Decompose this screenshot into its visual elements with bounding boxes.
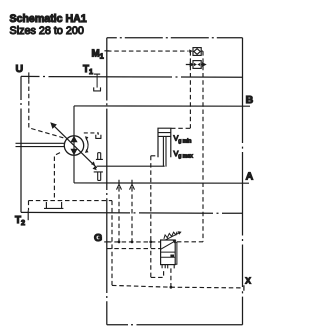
control valve V1 body	[161, 240, 176, 265]
stroking piston	[158, 133, 171, 137]
junction dot tap2-G	[131, 241, 134, 244]
svg-text:Sizes 28 to 200: Sizes 28 to 200	[10, 25, 84, 37]
orifice bowtie	[194, 63, 200, 66]
port U tick	[28, 72, 30, 79]
rotation direction arc	[86, 138, 88, 151]
check valve diamond	[194, 49, 200, 55]
spring adjustment arrow	[165, 233, 178, 240]
drain from valve bottom-right port (dashed)	[170, 268, 172, 287]
valve side bracket	[175, 242, 177, 264]
svg-text:T2: T2	[15, 215, 25, 227]
arrow out of orifice	[201, 63, 205, 66]
adjustment chevron 1	[91, 161, 95, 165]
control line valve to cylinder (dashed vertical)	[150, 156, 152, 278]
control valve metering diagonal	[161, 241, 175, 249]
control valve blob	[170, 255, 174, 258]
swivel arrowhead	[50, 122, 57, 129]
control housing envelope (dash-dot frame)	[107, 38, 243, 325]
drain riser from T2 (dashed)	[28, 201, 30, 211]
control valve diagonal arrowhead	[173, 240, 177, 243]
case drain drop from pump (dashed)	[54, 153, 60, 201]
port M1 tick	[104, 50, 109, 52]
pilot tap 2 on line A (dashed)	[131, 180, 133, 242]
port T2 tick	[27, 210, 29, 220]
svg-text:T1: T1	[83, 64, 93, 76]
rotation arc arrowhead top	[85, 136, 89, 140]
stroke stop lower (Vg 0 stop)	[94, 172, 103, 181]
case drain to internal tank (dashed, top right of pump)	[84, 133, 98, 135]
port X tick	[243, 285, 245, 290]
arrowhead into check valve	[189, 49, 193, 52]
pilot line from orifices to cylinder head side (dashed)	[171, 127, 190, 129]
pump flow line (vertical through pump)	[73, 106, 75, 183]
stroke stop upper (Vg max stop)	[96, 153, 103, 160]
svg-text:M1: M1	[92, 49, 104, 61]
arrow into orifice	[186, 63, 193, 66]
pump flow triangle up	[70, 136, 77, 143]
port T1 stem	[96, 74, 98, 88]
check valve body C1	[193, 48, 201, 56]
svg-text:U: U	[16, 63, 24, 75]
rotation arc arrowhead bottom	[85, 149, 89, 153]
adjustment chevron 2	[93, 166, 97, 170]
feedback link to stroking piston rod	[97, 165, 165, 167]
pilot line U (dashed, to swivel arrow)	[29, 79, 64, 138]
svg-text:Schematic HA1: Schematic HA1	[10, 13, 87, 25]
control valve spring	[164, 232, 177, 239]
piston rod	[163, 136, 166, 166]
swivel arrow (variable displacement)	[53, 125, 97, 168]
valve port tab bottom-right	[168, 265, 175, 269]
svg-text:A: A	[246, 171, 254, 183]
flow arrow on tap 2	[130, 184, 135, 189]
pilot line into rod-side chamber (dashed stub)	[151, 155, 158, 157]
svg-text:Vgmax: Vgmax	[174, 149, 194, 160]
orifice body O1	[193, 61, 201, 69]
svg-text:B: B	[246, 94, 254, 106]
port G tick	[104, 241, 109, 243]
pilot tap 1 on line A (dashed)	[118, 180, 120, 242]
control valve divider lines	[161, 252, 176, 257]
port T1 tick	[94, 73, 100, 75]
drain drop line (dashed vertical at case edge)	[111, 201, 113, 286]
pilot line G to control valve (dashed)	[107, 241, 161, 243]
flow arrow on tap 1	[117, 184, 122, 189]
pilot riser left of orifices (dashed)	[189, 51, 191, 128]
pump circle	[64, 136, 83, 155]
tank symbol near pump	[95, 135, 101, 139]
loop to valve bottom-left port (dashed)	[151, 268, 164, 277]
svg-text:X: X	[245, 276, 251, 286]
spring adjustment arrowhead	[178, 231, 182, 235]
svg-text:Vgmin: Vgmin	[174, 134, 192, 145]
case drain line to tank (dashed)	[29, 200, 113, 202]
stroking cylinder body	[158, 128, 171, 157]
junction dot tap1-G	[118, 241, 121, 244]
drive shaft	[16, 143, 65, 146]
valve port tab bottom-left	[162, 265, 165, 269]
work line A	[74, 182, 249, 184]
junction dot valve line-G	[149, 241, 152, 244]
work line B	[74, 105, 250, 107]
pilot line valve right side (dashed)	[177, 241, 203, 243]
pump flow triangle down	[70, 149, 77, 156]
drain / pilot X line (dashed)	[112, 285, 243, 288]
pilot line M1 (dashed)	[107, 50, 189, 52]
junction dot drain-X line	[170, 286, 173, 289]
svg-text:G: G	[94, 232, 102, 244]
tank symbol at T1	[93, 87, 101, 91]
pilot riser right of orifices (dashed)	[201, 51, 203, 242]
tank symbol at T2 drain	[44, 202, 63, 208]
drain line below G (dashed)	[107, 248, 161, 250]
pump housing envelope (dash-dot case outline)	[21, 76, 243, 213]
